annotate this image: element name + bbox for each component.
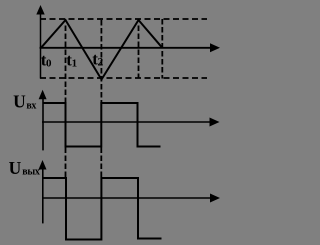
chart3 vertical axis: [42, 167, 44, 223]
triangle waveform: [41, 20, 162, 80]
chart1 horizontal axis: [40, 47, 213, 49]
dashed guide at wave end (x=162.5): [161, 19, 163, 79]
chart1 bottom dashed level line: [40, 77, 207, 79]
Uвых square wave: [43, 178, 162, 240]
chart3 horizontal axis: [42, 197, 212, 199]
chart1 horizontal axis arrowhead: [210, 43, 220, 52]
dashed guide at peak2 (x=138.5): [138, 26, 140, 79]
chart1 vertical axis arrowhead: [36, 5, 44, 15]
chart2 horizontal axis: [42, 121, 212, 123]
chart1 vertical axis: [40, 13, 42, 79]
chart2 horizontal axis arrowhead: [210, 118, 220, 127]
dashed guide x=101.3 between chart2 and chart3: [100, 148, 102, 178]
chart2 vertical axis: [42, 96, 44, 150]
dashed guide at trough (x=101.3): [100, 20, 102, 102]
dashed guide x=65.5 between chart2 and chart3: [65, 148, 67, 178]
chart1 top dashed level line: [40, 18, 207, 20]
chart2 vertical axis arrowhead: [39, 90, 47, 100]
chart3 vertical axis arrowhead: [39, 160, 47, 170]
chart3 horizontal axis arrowhead: [210, 194, 220, 203]
dashed guide at t1 (x=65.5) upper part: [65, 26, 67, 103]
Uвх square wave: [43, 103, 161, 147]
